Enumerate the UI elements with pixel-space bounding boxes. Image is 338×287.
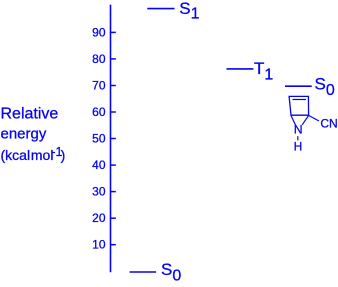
tick 20 (111, 217, 116, 219)
S0 ground level line (130, 271, 157, 273)
svg-text:CN: CN (320, 117, 337, 131)
svg-text:50: 50 (92, 132, 106, 146)
molecule: bond BR corner to N (302, 116, 308, 125)
svg-text:(kcalmol-1): (kcalmol-1) (1, 145, 66, 163)
tick 90 (111, 31, 116, 33)
svg-text:20: 20 (92, 211, 106, 225)
svg-text:90: 90 (92, 25, 106, 39)
svg-text:40: 40 (92, 158, 106, 172)
molecule: N-H bond (297, 136, 299, 140)
svg-text:S0: S0 (315, 75, 335, 100)
svg-text:S0: S0 (161, 260, 181, 284)
tick 40 (111, 164, 116, 166)
molecule: bond BR corner to CN (309, 116, 319, 122)
svg-text:H: H (294, 139, 303, 153)
S0 upper level line (Dewar isomer) (285, 85, 312, 87)
molecule: cyclobutene ring (square) (289, 96, 309, 115)
svg-text:10: 10 (92, 238, 106, 252)
svg-text:N: N (294, 122, 303, 136)
svg-text:80: 80 (92, 52, 106, 66)
svg-text:70: 70 (92, 79, 106, 93)
tick 80 (111, 58, 116, 60)
tick 50 (111, 138, 116, 140)
svg-text:60: 60 (92, 105, 106, 119)
tick 60 (111, 111, 116, 113)
molecule: ring double bond inner line (293, 99, 307, 101)
svg-text:30: 30 (92, 185, 106, 199)
molecule: bond BL corner to N (291, 116, 296, 126)
svg-text:energy: energy (1, 126, 47, 143)
svg-text:S1: S1 (179, 0, 199, 22)
S1 level line (147, 8, 174, 10)
T1 level line (227, 68, 254, 70)
tick 30 (111, 191, 116, 193)
tick 10 (111, 244, 116, 246)
tick 70 (111, 85, 116, 87)
y-axis line (110, 5, 112, 273)
svg-text:Relative: Relative (1, 106, 59, 123)
svg-text:T1: T1 (254, 59, 273, 83)
